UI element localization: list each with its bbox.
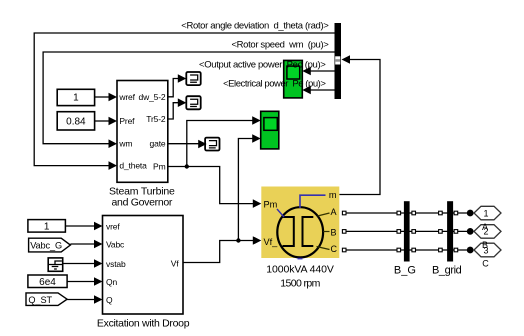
svg-text:Vabc_G: Vabc_G [30, 241, 62, 251]
junction dot Pm branch [185, 164, 189, 168]
wire phase C [346, 249, 467, 251]
wire Pm branch to scope2 [187, 121, 253, 167]
connection dot phase A [467, 210, 474, 217]
block Excitation with Droop [97, 216, 190, 330]
svg-text:<Electrical power Pe (pu)>: <Electrical power Pe (pu)> [223, 78, 326, 89]
connection dot phase B [467, 228, 474, 235]
svg-text:Vf: Vf [171, 258, 180, 268]
wire Tr5-2 to terminator T2 [168, 103, 179, 119]
arrowhead scope2 in2 [252, 134, 261, 143]
squares right of B_grid [454, 211, 458, 215]
arrowhead excitation Qn [94, 277, 103, 286]
svg-text:C: C [482, 258, 489, 268]
wire source to vref [65, 225, 95, 227]
arrowhead wref [109, 93, 118, 102]
arrowhead machine Pm [253, 199, 262, 208]
from tag Q_ST [26, 293, 67, 306]
svg-text:C: C [331, 244, 338, 254]
wire const wref [95, 96, 110, 98]
svg-text:1000kVA 440V: 1000kVA 440V [266, 263, 334, 275]
svg-text:gate: gate [150, 139, 166, 149]
constant 6e4 (Qn) [28, 275, 67, 288]
arrowhead excitation Vabc [94, 240, 103, 249]
svg-text:1: 1 [483, 208, 488, 218]
synchronous machine block [261, 187, 339, 259]
bus selector input port marker [335, 56, 340, 64]
wire const Pref [95, 120, 110, 122]
svg-text:wm: wm [118, 139, 132, 149]
terminator T2 [186, 96, 200, 109]
svg-text:<Rotor angle deviation d_thet: <Rotor angle deviation d_theta (rad)> [181, 20, 329, 31]
svg-text:1: 1 [73, 93, 79, 104]
svg-text:<Rotor speed wm (pu)>: <Rotor speed wm (pu)> [231, 40, 329, 51]
svg-text:B_grid: B_grid [432, 264, 462, 276]
machine ellipse [277, 207, 323, 257]
machine shaft tick (blue) [298, 258, 303, 260]
wire 6e4 to Qn [67, 281, 95, 283]
arrowhead scope2 in1 [252, 116, 261, 125]
svg-text:1500 rpm: 1500 rpm [280, 277, 320, 289]
arrowhead wm [109, 139, 118, 148]
svg-text:6e4: 6e4 [39, 277, 56, 288]
arrowhead d_theta [109, 161, 118, 170]
svg-text:Tr5-2: Tr5-2 [146, 114, 166, 124]
svg-text:Pm: Pm [264, 200, 278, 210]
arrowhead scope1 in1 [302, 67, 311, 76]
squares right of B_G [412, 211, 416, 215]
outport hexagon 2 [474, 225, 501, 239]
arrowhead T3 [198, 140, 207, 149]
arrowhead excitation Q [94, 295, 103, 304]
machine left bracket [283, 217, 294, 246]
svg-text:A: A [331, 207, 337, 217]
svg-text:B: B [482, 240, 488, 250]
wire Q_ST to Q [67, 299, 95, 301]
squares left of B_grid [439, 211, 443, 215]
machine C label [317, 247, 330, 250]
arrowhead Pref [109, 117, 118, 126]
from tag Vabc_G [29, 238, 71, 252]
arrowhead scope1 in2 [302, 86, 311, 95]
svg-text:vref: vref [106, 221, 120, 231]
constant 1 (wref) [57, 89, 94, 105]
machine right bracket [303, 217, 314, 246]
svg-text:Vabc: Vabc [106, 239, 125, 249]
arrowhead bus selector input [342, 55, 351, 64]
svg-text:Q_ST: Q_ST [28, 295, 52, 305]
scope Scope1 (green) [284, 60, 303, 98]
step source vstab [48, 258, 63, 271]
wire bus output 1 d_theta [34, 33, 334, 166]
junction dot Vf branch [236, 238, 240, 242]
svg-text:dw_5-2: dw_5-2 [139, 92, 166, 102]
squares machine side [342, 211, 346, 215]
terminator T1 [186, 72, 200, 85]
svg-text:Pm: Pm [153, 161, 166, 171]
constant 0.84 (Pref) [57, 112, 94, 130]
svg-text:A: A [482, 222, 488, 232]
svg-text:d_theta: d_theta [119, 161, 147, 171]
svg-text:<Output active power Peo (pu): <Output active power Peo (pu)> [199, 59, 326, 70]
svg-text:vstab: vstab [106, 259, 126, 269]
bus bar B_G [404, 201, 410, 261]
arrowhead excitation vstab [94, 259, 103, 268]
scope Scope2 (green) [261, 111, 279, 149]
wire Pm to machine [168, 167, 254, 204]
wire Vabc_G to Vabc [70, 243, 95, 245]
wire bus output 3 to scope1 [310, 70, 335, 72]
svg-text:Qn: Qn [106, 277, 117, 287]
arrowhead T1 [178, 74, 187, 83]
wire dw_5-2 to terminator T1 [168, 79, 179, 97]
wire Vf branch to scope2 [238, 139, 253, 241]
block Steam Turbine and Governor [109, 81, 175, 209]
svg-text:m: m [329, 190, 337, 200]
connection dot phase C [467, 247, 474, 254]
wire vstab to excitation [63, 263, 95, 265]
svg-text:Vf_: Vf_ [264, 237, 279, 247]
svg-text:1: 1 [44, 222, 50, 233]
svg-text:wref: wref [118, 92, 135, 102]
outport hexagon 1 [474, 206, 501, 220]
svg-text:Steam Turbine: Steam Turbine [109, 185, 175, 197]
wire bus output 2 wm [43, 52, 334, 144]
squares left of B_G [397, 211, 401, 215]
bus bar B_grid [447, 201, 453, 261]
svg-text:and Governor: and Governor [111, 197, 172, 209]
svg-text:B_G: B_G [394, 264, 416, 276]
svg-text:Excitation with Droop: Excitation with Droop [97, 317, 190, 329]
terminator T3 [205, 138, 219, 151]
arrowhead machine Vf [253, 236, 262, 245]
machine B label [323, 231, 329, 233]
svg-text:Q: Q [106, 295, 113, 305]
bus selector bar [335, 23, 342, 99]
svg-text:Pref: Pref [119, 116, 135, 126]
wire Vf to machine [183, 241, 254, 263]
wire phase B [346, 230, 467, 232]
phase port squares [342, 211, 457, 252]
wire machine m to bus selector [339, 60, 380, 195]
machine A label [318, 213, 330, 216]
svg-text:B: B [331, 227, 337, 237]
constant 1 (vref) [28, 220, 66, 233]
wire gate to terminator T3 [168, 143, 199, 145]
wire phase A [346, 212, 467, 214]
arrowhead excitation vref [94, 222, 103, 231]
outport hexagon 3 [474, 243, 501, 257]
svg-text:0.84: 0.84 [66, 117, 86, 128]
arrowhead T2 [178, 98, 187, 107]
wire bus output 4 to scope1 [310, 89, 335, 91]
machine m icon line (blue) [300, 195, 326, 208]
